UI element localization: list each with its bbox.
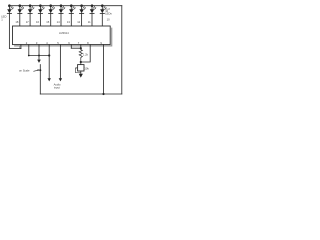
wire LED2 cathode to pin 18	[19, 13, 21, 26]
wire bottom +V rail	[40, 93, 122, 95]
svg-text:LEDs: LEDs	[105, 12, 112, 16]
wire LED3 cathode to pin 17	[29, 13, 31, 26]
node pin9 rail	[102, 93, 104, 95]
ground arrow	[37, 60, 41, 63]
wire divider down	[39, 65, 41, 94]
LED D4	[38, 4, 44, 13]
LED D2	[18, 4, 24, 13]
pin 5 wire to input	[59, 45, 61, 79]
wire LED10 cathode to pin 10	[101, 13, 103, 26]
wire pin6 to pin7	[71, 47, 81, 49]
LED D9	[90, 4, 96, 13]
LED D10	[100, 4, 106, 13]
wire LED6 cathode to pin 14	[60, 13, 62, 26]
input terminal arrow B	[59, 78, 62, 81]
LED D3	[28, 4, 34, 13]
LED D8	[79, 4, 85, 13]
svg-text:16: 16	[36, 20, 39, 24]
svg-text:1.2k: 1.2k	[83, 52, 89, 56]
wire pot to ground	[80, 71, 82, 74]
wire LED9 cathode to pin 11	[91, 13, 93, 26]
pin 4 wire to input	[48, 45, 50, 79]
pin 9 wire	[103, 45, 105, 94]
node R1 bottom	[80, 61, 82, 63]
svg-text:12: 12	[77, 20, 80, 24]
svg-text:17: 17	[26, 20, 29, 24]
node rail junction pin3	[38, 55, 40, 57]
node rail end pin4	[48, 54, 50, 56]
wire LED7 cathode to pin 13	[70, 13, 72, 26]
LED D5	[49, 4, 55, 13]
U1 box shadow	[14, 28, 112, 46]
LED D1	[7, 4, 13, 13]
svg-text:14: 14	[57, 20, 60, 24]
svg-text:LM3914: LM3914	[59, 31, 69, 35]
svg-text:input: input	[54, 85, 60, 89]
wire LED5 cathode to pin 15	[50, 13, 52, 26]
svg-text:10k: 10k	[84, 66, 89, 70]
input terminal arrow A	[48, 78, 51, 81]
node pin2 rail corner	[28, 55, 30, 57]
svg-text:18: 18	[15, 20, 18, 24]
svg-text:10: 10	[107, 17, 110, 21]
pin 3 wire	[38, 45, 40, 60]
wire LED1 cathode down left side	[8, 13, 10, 48]
ground	[79, 74, 83, 78]
pin 7 stub	[80, 45, 82, 49]
svg-text:15: 15	[46, 20, 49, 24]
node wiper	[39, 69, 41, 71]
svg-text:on Scale: on Scale	[19, 68, 30, 72]
wire node to pot	[80, 62, 82, 65]
LED D7	[69, 4, 75, 13]
svg-text:13: 13	[67, 20, 70, 24]
pin 6 stub	[70, 45, 72, 49]
ground rail wire	[29, 55, 49, 57]
potentiometer VR2 10k	[75, 65, 84, 73]
wire LED8 cathode to pin 12	[81, 13, 83, 26]
wire top anode bus (+V)	[9, 5, 121, 7]
svg-text:11: 11	[88, 20, 91, 24]
resistor R1 1.2k	[79, 48, 82, 62]
node pin7	[80, 47, 82, 49]
wiper arrow	[33, 70, 37, 71]
pin 8 wire	[81, 45, 90, 62]
wire pin1 to LED1	[9, 47, 21, 49]
op-amp U1 LM3914 box	[13, 26, 111, 45]
wire LED4 cathode to pin 16	[39, 13, 41, 26]
wire right vertical bus	[121, 6, 123, 94]
pin 1 stub	[20, 45, 22, 49]
pin 2 wire	[28, 45, 30, 56]
LED D6	[59, 4, 65, 13]
